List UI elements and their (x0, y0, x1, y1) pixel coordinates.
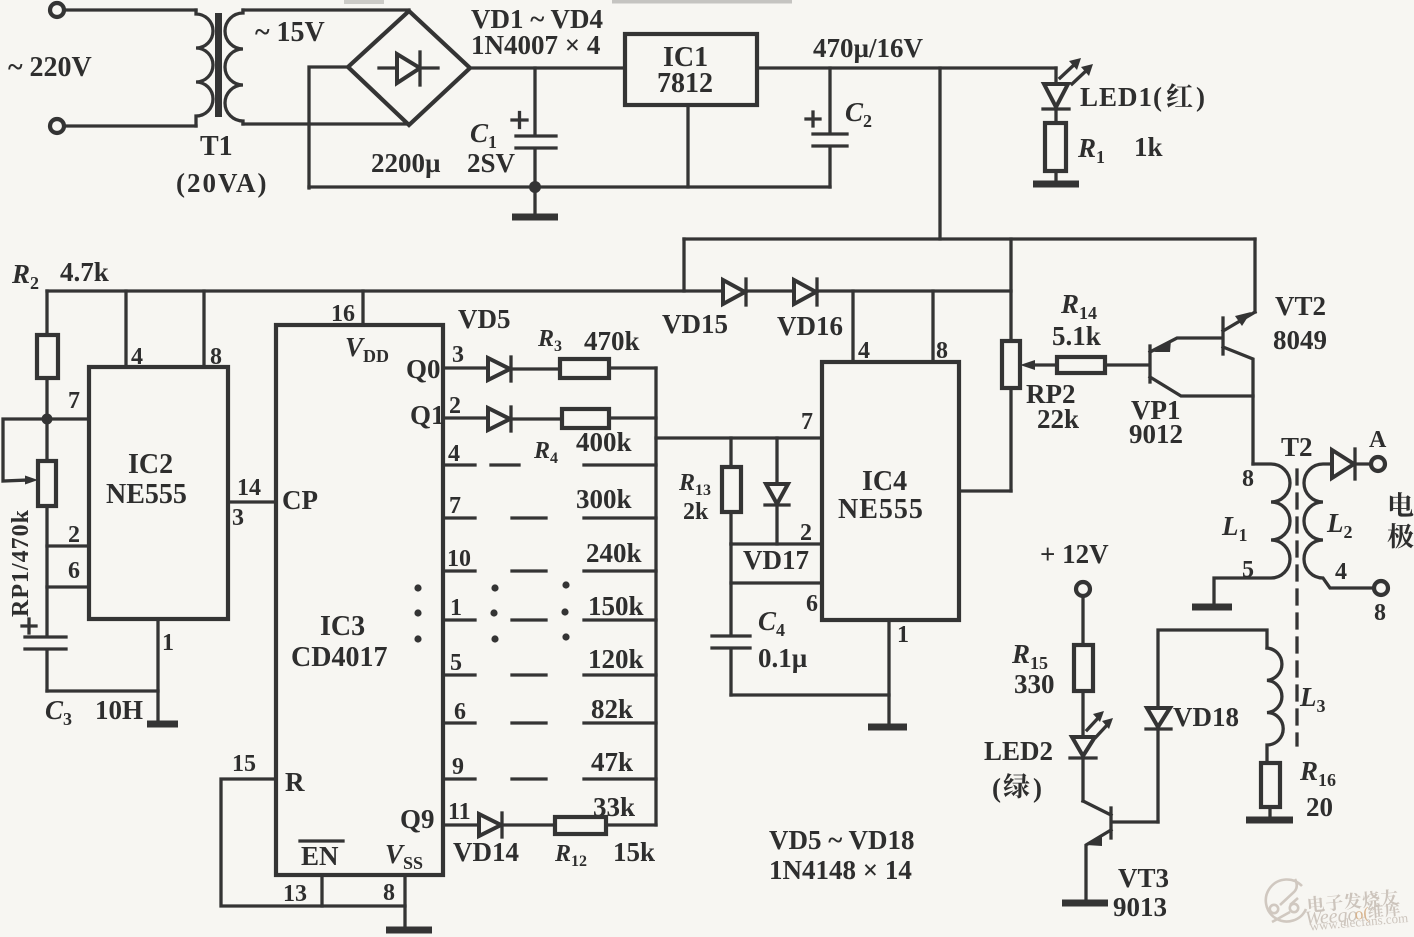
wire C4 to IC4 pin1 (731, 693, 889, 696)
svg-text:CD4017: CD4017 (291, 642, 387, 673)
IC3 pin 10 row stub (443, 569, 475, 572)
label electrode (1390, 492, 1413, 517)
resistor R3 (560, 359, 609, 378)
ground below IC3 (386, 927, 432, 934)
ground below IC4 (868, 724, 907, 731)
IC4 pin 6 wire (731, 581, 822, 584)
svg-text:4: 4 (448, 441, 460, 467)
IC2 pin 8 wire (202, 291, 205, 367)
IC1 ground pin wire (686, 105, 689, 187)
transistor VT3 9013 (1109, 808, 1112, 838)
resistor network bus (654, 368, 657, 825)
wire 150k row (584, 569, 656, 572)
diode VD16 (794, 280, 816, 304)
terminal AC input bottom (50, 119, 64, 133)
omitted diode dash (512, 618, 546, 621)
bridge inner diode symbol (379, 66, 397, 69)
svg-text:T2: T2 (1281, 432, 1313, 462)
svg-text:8: 8 (383, 880, 395, 906)
svg-text:6: 6 (68, 558, 80, 584)
wire bridge left vertex to negative rail (309, 67, 348, 188)
svg-text:T1: T1 (200, 131, 233, 162)
T2 winding L3 (1267, 648, 1283, 763)
svg-text:2SV: 2SV (467, 148, 516, 178)
IC3 pin 2 Q1 row wire (443, 416, 488, 419)
capacitor C4 (712, 634, 750, 637)
svg-text:300k: 300k (576, 484, 632, 514)
svg-text:VD15: VD15 (662, 309, 728, 339)
negative ground rail (309, 185, 830, 188)
wire bridge output to IC1 (470, 66, 625, 69)
svg-text:47k: 47k (591, 747, 633, 777)
main supply rail to IC2/IC3 (47, 289, 1011, 292)
svg-text:2: 2 (449, 393, 461, 419)
svg-text:470µ/16V: 470µ/16V (813, 33, 924, 63)
wire 47k row (584, 721, 656, 724)
RP1 wiper arrowhead (25, 476, 38, 485)
ground below pin1 (147, 721, 178, 728)
wire 240k row (584, 516, 656, 519)
svg-text:~ 220V: ~ 220V (8, 52, 92, 83)
potentiometer RP2 22k (1002, 341, 1020, 388)
transformer T1 core (215, 13, 222, 117)
svg-text:1: 1 (897, 622, 909, 648)
wire 33k row (584, 777, 656, 780)
svg-text:VD5 ~ VD18: VD5 ~ VD18 (769, 825, 915, 855)
wire VD18 branch (1158, 630, 1267, 822)
omitted diode dash (512, 721, 546, 724)
IC3 CD4017 box (276, 325, 443, 875)
watermark logo (1266, 879, 1306, 922)
wire corner down to VD15 bus (682, 239, 685, 291)
C2 plus sign (806, 112, 820, 126)
IC3 pin 11 Q9 row wire (443, 823, 479, 826)
diode VD18 (1147, 708, 1170, 727)
svg-text:5.1k: 5.1k (1052, 321, 1101, 351)
wire IC1 output rail (757, 66, 1056, 69)
LED1 emission arrows (1060, 63, 1076, 78)
svg-text:330: 330 (1014, 669, 1055, 699)
IC4 pin 1 wire (887, 620, 890, 726)
svg-text:15k: 15k (613, 837, 655, 867)
svg-text:): ) (1033, 773, 1042, 803)
ground below C1 (533, 187, 536, 215)
IC4 pin 7 wire (656, 436, 822, 439)
svg-text:Q9: Q9 (400, 804, 435, 834)
IC3 pin 5 row stub (443, 673, 475, 676)
svg-text:120k: 120k (588, 644, 644, 674)
wire IC4 pin3 output (959, 489, 1011, 492)
diode VD6 (488, 408, 510, 430)
IC3 pin 1 row stub (443, 618, 475, 621)
svg-text:9: 9 (452, 754, 464, 780)
ground below R1 (1033, 181, 1079, 188)
svg-text:1k: 1k (1134, 132, 1163, 162)
svg-text:VD18: VD18 (1173, 702, 1239, 732)
svg-text:NE555: NE555 (106, 479, 187, 510)
svg-text:13: 13 (283, 881, 307, 907)
svg-text:2k: 2k (683, 499, 709, 525)
svg-text:5: 5 (1242, 557, 1254, 583)
IC3 pin 6 row stub (443, 721, 475, 724)
bridge rectifier VD1-VD4 diamond (348, 11, 470, 125)
svg-text:14: 14 (237, 475, 261, 501)
IC4 pin 2 wire (731, 542, 822, 545)
T2 core dashed (1295, 470, 1298, 745)
svg-text:+ 12V: + 12V (1040, 539, 1109, 569)
resistor R15 330 (1074, 645, 1093, 691)
svg-text:240k: 240k (586, 538, 642, 568)
VT3 base wire (1113, 820, 1158, 823)
IC1 7812 box (625, 34, 757, 105)
resistor R2 (45, 291, 48, 335)
svg-text:R: R (285, 767, 305, 797)
IC4 pin 8 wire (931, 291, 934, 362)
LED1 indicator (1054, 68, 1057, 84)
svg-text:2: 2 (68, 522, 80, 548)
svg-text:8: 8 (210, 344, 222, 370)
svg-text:2: 2 (800, 520, 812, 546)
svg-text:4: 4 (131, 344, 143, 370)
transformer T1 secondary winding (225, 10, 243, 124)
capacitor C3 (25, 635, 66, 638)
VT2 collector wire (1253, 239, 1256, 312)
terminal A (1371, 457, 1385, 471)
svg-text:(20VA): (20VA) (176, 168, 269, 198)
wire IC2 pin 6 (47, 585, 89, 588)
transistor VP1 9012 (1148, 346, 1151, 382)
capacitor C1 (533, 68, 536, 135)
wire (64, 124, 196, 127)
resistor R1 (1045, 123, 1066, 171)
svg-text:LED2: LED2 (984, 736, 1053, 766)
IC3 pin 15 reset wire (221, 779, 405, 906)
IC4 pin 4 wire (851, 291, 854, 362)
wire pin2 to C4 (729, 544, 732, 635)
wire RP1 wiper loop (3, 419, 47, 481)
IC3 pin 3 Q0 row wire (443, 366, 488, 369)
svg-text:1N4007 × 4: 1N4007 × 4 (471, 30, 600, 60)
IC3 pin 8 wire to ground (403, 875, 406, 929)
IC3 pin 16 wire (361, 291, 364, 325)
ellipsis dots resistor column (562, 581, 569, 588)
svg-text:0.1µ: 0.1µ (758, 643, 808, 673)
RP2 wiper arrow from R14 (1030, 363, 1057, 366)
ground below VT3 (1062, 900, 1108, 907)
wire bus end down to RP2 (1009, 239, 1012, 341)
resistor R16 20 (1261, 763, 1280, 807)
terminal +12V (1076, 582, 1090, 596)
svg-text:7: 7 (68, 388, 80, 414)
terminal AC input top (50, 3, 64, 17)
svg-text:5: 5 (450, 650, 462, 676)
terminal lower electrode (1374, 581, 1388, 595)
scan artifact top edge (612, 0, 792, 4)
svg-text:RP1/470k: RP1/470k (8, 509, 34, 617)
svg-text:Q1: Q1 (410, 400, 445, 430)
svg-text:CP: CP (282, 485, 318, 515)
svg-text:8: 8 (1374, 600, 1386, 626)
svg-text:): ) (1196, 82, 1205, 112)
C3 plus sign (22, 619, 36, 633)
IC3 pin 7 row stub (443, 516, 475, 519)
wire to IC2 pin 7 (47, 417, 89, 420)
svg-text:8049: 8049 (1273, 325, 1327, 355)
svg-text:11: 11 (448, 799, 471, 825)
svg-text:IC4: IC4 (862, 466, 907, 497)
svg-text:VD16: VD16 (777, 311, 843, 341)
svg-text:10: 10 (447, 546, 471, 572)
wire C3 to IC2 pin1 (47, 689, 158, 692)
wire 82k row (584, 673, 656, 676)
IC3 pin 13 wire (320, 875, 323, 906)
svg-text:VD14: VD14 (453, 837, 519, 867)
svg-text:~ 15V: ~ 15V (255, 17, 325, 48)
svg-text:VT3: VT3 (1118, 863, 1169, 893)
svg-text:LED1(: LED1( (1080, 82, 1163, 112)
omitted diode dash (512, 673, 546, 676)
svg-text:7812: 7812 (657, 68, 713, 99)
wire IC2 pin3 to IC3 CP (228, 500, 276, 503)
svg-text:10H: 10H (95, 695, 143, 725)
svg-text:4.7k: 4.7k (60, 257, 109, 287)
svg-text:15: 15 (232, 751, 256, 777)
svg-text:VT2: VT2 (1275, 291, 1326, 321)
omitted diode dash (512, 516, 546, 519)
transistor VT2 8049 (1221, 318, 1224, 354)
wire horizontal distribution (684, 237, 1255, 240)
wire secondary top to bridge (243, 8, 409, 11)
omitted diode dash (512, 569, 546, 572)
omitted diode dash (512, 777, 546, 780)
svg-text:400k: 400k (576, 427, 632, 457)
svg-text:NE555: NE555 (838, 494, 924, 525)
diode VD15 (723, 280, 745, 304)
resistor R14 (1057, 357, 1105, 373)
svg-text:VD5: VD5 (458, 304, 511, 334)
resistor R13 (729, 438, 732, 467)
LED2 emission arrows (1087, 716, 1100, 730)
svg-text:7: 7 (801, 409, 813, 435)
IC3 pin 9 row stub (443, 777, 475, 780)
svg-text:6: 6 (806, 591, 818, 617)
IC2 NE555 box (89, 367, 228, 619)
wire 300k row (584, 463, 656, 466)
diode VD5 (488, 358, 510, 380)
svg-text:2200µ: 2200µ (371, 148, 441, 178)
diode VD17 (775, 438, 778, 484)
watermark text (1303, 888, 1409, 934)
svg-text:3: 3 (452, 342, 464, 368)
IC2 pin 4 wire (124, 291, 127, 367)
svg-text:82k: 82k (591, 694, 633, 724)
svg-text:VD17: VD17 (743, 545, 809, 575)
svg-text:1: 1 (162, 630, 174, 656)
omitted diode dash (491, 463, 519, 466)
svg-text:6: 6 (454, 699, 466, 725)
svg-text:A: A (1369, 427, 1387, 453)
transformer T1 primary winding (196, 10, 213, 126)
wire secondary bottom to bridge bottom vertex (243, 122, 409, 125)
svg-text:470k: 470k (584, 326, 640, 356)
svg-text:4: 4 (1335, 559, 1347, 585)
svg-text:150k: 150k (588, 591, 644, 621)
wire (64, 8, 196, 11)
svg-text:3: 3 (232, 505, 244, 531)
C1 plus sign (512, 113, 527, 128)
IC2 pin 1 wire (156, 619, 159, 723)
svg-text:EN: EN (301, 841, 339, 871)
junction node C1/ground (529, 181, 541, 193)
diode VD14 (479, 814, 501, 836)
svg-text:8: 8 (1242, 466, 1254, 492)
IC4 NE555 box (822, 362, 959, 620)
svg-text:16: 16 (331, 301, 355, 327)
diode to electrode A (1332, 450, 1354, 478)
T2 winding L1 (1214, 464, 1290, 606)
svg-text:7: 7 (449, 493, 461, 519)
ground below L1 (1192, 604, 1232, 611)
wire 120k row (584, 618, 656, 621)
ellipsis dots diode column (491, 584, 498, 591)
svg-text:1N4148 × 14: 1N4148 × 14 (769, 855, 912, 885)
svg-text:IC2: IC2 (128, 449, 173, 480)
ground below R16 (1246, 817, 1293, 824)
wire IC2 pin 2 (47, 544, 89, 547)
svg-text:22k: 22k (1037, 404, 1079, 434)
LED2 green (1072, 737, 1095, 756)
svg-text:(: ( (992, 773, 1001, 803)
ellipsis dots pin column (414, 584, 421, 591)
svg-text:9013: 9013 (1113, 892, 1167, 922)
svg-text:9012: 9012 (1129, 419, 1183, 449)
svg-text:20: 20 (1306, 792, 1333, 822)
svg-text:IC3: IC3 (320, 611, 365, 642)
T2 winding L2 (1304, 464, 1374, 588)
wire +12V rail drop to oscillator bus (938, 68, 941, 239)
svg-text:Q0: Q0 (406, 354, 441, 384)
resistor R4 (562, 409, 609, 428)
svg-text:1: 1 (450, 595, 462, 621)
junction node R2/RP1/pin7 (42, 414, 53, 425)
potentiometer RP1 470k (45, 419, 48, 461)
IC3 pin 4 row stub (443, 463, 475, 466)
resistor R12 (555, 817, 606, 834)
capacitor C2 (828, 68, 831, 132)
